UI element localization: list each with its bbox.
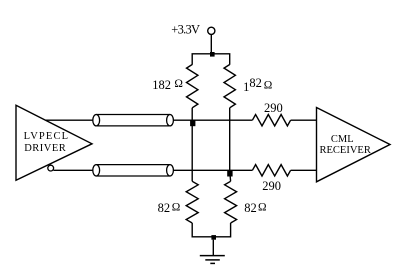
terminal circle +3.3V bbox=[208, 27, 215, 34]
wire node A down through bottom bus to 82 ohm left bbox=[191, 120, 193, 181]
inversion bubble on driver inverting output bbox=[48, 165, 54, 171]
junction ground node bbox=[211, 235, 216, 240]
resistor 290 ohm bottom (R6) bbox=[252, 165, 290, 176]
svg-text:82: 82 bbox=[244, 201, 256, 215]
wire node B down to 82 ohm right bbox=[229, 170, 232, 181]
transmission line T2 (bottom coax) bbox=[93, 165, 174, 176]
junction node B (bottom bus / right vertical) bbox=[227, 171, 232, 177]
wire R2 bottom through top bus to bottom bus bbox=[229, 108, 231, 171]
op-amp U1 LVPECL DRIVER triangle bbox=[16, 105, 92, 180]
transmission line T1 (top coax) bbox=[93, 115, 174, 126]
op-amp U2 CML RECEIVER triangle bbox=[317, 108, 391, 182]
svg-text:Ω: Ω bbox=[264, 79, 273, 91]
resistor 182 ohm left (R1) bbox=[187, 65, 198, 108]
svg-text:+3.3V: +3.3V bbox=[171, 23, 200, 37]
wire bottom 290 to receiver bbox=[291, 169, 317, 171]
wire top 290 to receiver bbox=[291, 119, 317, 121]
wire top coax to top 290 resistor (top bus) bbox=[173, 119, 252, 121]
wire supply stem bbox=[210, 34, 212, 53]
junction node A (top bus / left vertical) bbox=[190, 120, 195, 126]
svg-text:RECEIVER: RECEIVER bbox=[320, 145, 371, 156]
svg-text:CML: CML bbox=[331, 134, 354, 145]
svg-text:82: 82 bbox=[249, 76, 262, 90]
wire R4 bottom to ground join bbox=[213, 223, 230, 237]
wire ground stem bbox=[212, 240, 214, 256]
resistor 290 ohm top (R5) bbox=[252, 115, 290, 126]
resistor 82 ohm right (R4) bbox=[225, 181, 237, 223]
svg-text:290: 290 bbox=[264, 101, 283, 115]
svg-text:Ω: Ω bbox=[174, 78, 183, 90]
svg-text:Ω: Ω bbox=[172, 202, 181, 214]
junction supply node bbox=[210, 52, 215, 57]
svg-text:182: 182 bbox=[152, 78, 171, 92]
svg-text:LVPECL: LVPECL bbox=[24, 131, 70, 142]
resistor 82 ohm left (R3) bbox=[186, 181, 198, 223]
wire supply branch bbox=[192, 54, 230, 65]
wire bottom coax to bottom 290 resistor (bottom bus) bbox=[173, 169, 252, 171]
wire R3 bottom to ground join bbox=[192, 223, 213, 237]
wire driver inverting output to bottom transmission line bbox=[54, 169, 94, 171]
wire R1 bottom to top bus bbox=[191, 108, 193, 120]
svg-text:Ω: Ω bbox=[258, 202, 267, 214]
wire driver noninverting output to top transmission line bbox=[45, 119, 93, 121]
resistor 182 ohm right (R2) bbox=[224, 65, 235, 108]
svg-text:82: 82 bbox=[158, 201, 171, 215]
svg-text:290: 290 bbox=[262, 179, 281, 193]
ground bbox=[200, 256, 225, 264]
svg-text:DRIVER: DRIVER bbox=[24, 143, 66, 154]
